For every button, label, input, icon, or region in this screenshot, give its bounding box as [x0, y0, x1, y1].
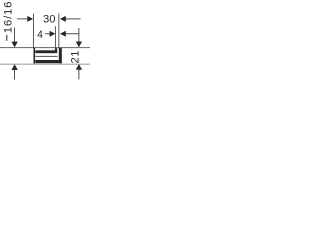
profile: inner thin line: [35, 55, 57, 58]
dimension 4: right arrowhead: [60, 31, 66, 37]
dimension 4: left arrowhead: [50, 31, 56, 37]
dimension 30: right arrowhead: [60, 16, 66, 22]
profile: bottom wall: [35, 60, 61, 63]
leading dash of -16/16: [6, 35, 7, 41]
dimension 21: down arrowhead: [76, 42, 82, 48]
dimension 30: left arrowhead: [27, 16, 33, 22]
dimension -16/16 left: vertical line: [13, 28, 16, 42]
dimension 4: arrow tail: [45, 32, 50, 35]
dimension 21: up arrowhead: [76, 64, 82, 70]
dimension -16/16 left: down arrowhead: [11, 42, 17, 48]
extension line A: [32, 14, 35, 48]
profile: right wall: [59, 48, 62, 64]
extension line C: [58, 14, 61, 48]
profile: left cap: [34, 48, 36, 64]
back surface line L2: [0, 63, 90, 66]
wall surface line L1: [0, 46, 90, 49]
dimension 21: bottom tail: [78, 69, 81, 79]
dimension 21: top vertical line: [78, 28, 81, 42]
svg-text:30: 30: [43, 14, 55, 26]
profile: top wall: [35, 50, 57, 53]
extension line B: [54, 26, 57, 47]
dimension -16/16 left: up arrowhead: [11, 64, 17, 70]
dimension -16/16 left: bottom tail: [13, 70, 16, 80]
svg-text:16/16: 16/16: [3, 1, 15, 34]
svg-text:21: 21: [69, 50, 81, 63]
dimension 30: right arrow tail: [66, 18, 81, 21]
svg-text:4: 4: [37, 29, 43, 41]
dimension 30: left arrow tail: [17, 18, 28, 21]
profile: slot lip: [55, 48, 57, 51]
dimension 4: right arrow tail: [66, 32, 79, 35]
